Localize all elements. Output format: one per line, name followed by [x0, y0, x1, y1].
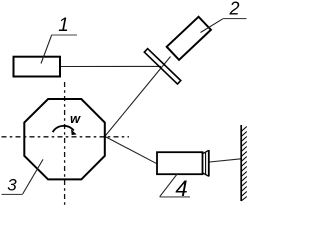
svg-text:2: 2	[228, 0, 239, 18]
svg-text:3: 3	[7, 176, 17, 195]
svg-text:1: 1	[58, 15, 69, 36]
svg-text:w: w	[70, 111, 81, 126]
svg-text:4: 4	[175, 176, 187, 201]
